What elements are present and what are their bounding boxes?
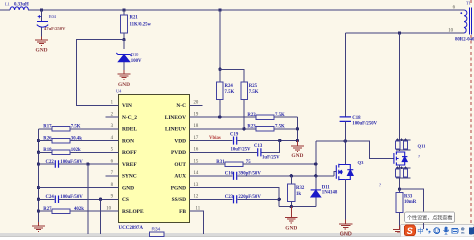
- svg-text:GND: GND: [122, 185, 134, 191]
- ground GND (shunt): [393, 230, 406, 234]
- pin 4 RON: [106, 136, 119, 141]
- svg-text:11K/0.25w: 11K/0.25w: [130, 23, 152, 28]
- input bar panel: [401, 224, 474, 237]
- svg-text:13: 13: [194, 183, 199, 188]
- svg-text:10uF/25V: 10uF/25V: [231, 147, 252, 152]
- transformer T1 primary coil: [460, 10, 466, 33]
- node junction R32 top: [290, 174, 293, 177]
- wire R33 to gnd: [399, 213, 401, 226]
- wire pin17 row VDD: [202, 140, 297, 142]
- svg-text:GND: GND: [340, 231, 352, 237]
- wire E04 branch: [41, 10, 43, 21]
- node junction rail to divider: [218, 8, 221, 11]
- svg-text:16: 16: [194, 148, 199, 153]
- wire pin4 row: [39, 140, 119, 142]
- wire pin6 branch down: [87, 164, 89, 233]
- wire pin13 row PGND: [202, 188, 279, 207]
- pin 17 VDD: [190, 136, 203, 141]
- pin label 6 (transformer): [453, 5, 456, 10]
- node junction clamp rail: [344, 139, 347, 142]
- svg-text:10mR: 10mR: [404, 200, 417, 205]
- svg-text:R26: R26: [43, 136, 52, 141]
- svg-text:OUT: OUT: [174, 162, 186, 168]
- capacitor E04 47uF/250V (polarized): [37, 15, 48, 27]
- svg-text:FB: FB: [179, 209, 186, 215]
- resistor R17 7.5K (RDEL): [43, 125, 81, 131]
- svg-text:19: 19: [194, 112, 199, 117]
- resistor R27 402k (RSLOPE): [43, 207, 84, 213]
- inductor L1: [10, 7, 28, 10]
- wire transformer primary return: [345, 33, 464, 116]
- resistor R18 102k (ROFF): [43, 148, 81, 154]
- label L1 value 0.33uH: [5, 1, 29, 7]
- svg-text:390pF/50V: 390pF/50V: [238, 171, 261, 176]
- svg-text:LINEUV: LINEUV: [165, 127, 186, 133]
- svg-text:30.4k: 30.4k: [71, 136, 82, 141]
- svg-text:R17: R17: [43, 125, 52, 130]
- svg-text:R32: R32: [296, 186, 305, 191]
- wire R24 to pin19: [219, 99, 221, 117]
- node junction Q11 drain feed: [398, 31, 401, 34]
- wire rail to R21: [123, 10, 125, 15]
- svg-text:1N4148: 1N4148: [322, 191, 338, 196]
- icon toolbox person: [461, 227, 465, 233]
- wire clamp rail to Q11 gate: [316, 141, 394, 159]
- wire Q3 source to gnd: [344, 180, 346, 220]
- svg-text:47uF/250V: 47uF/250V: [44, 26, 66, 31]
- wire pin19 row LINEOV: [202, 116, 297, 118]
- svg-text:GND: GND: [118, 82, 130, 88]
- svg-text:R18: R18: [43, 148, 52, 153]
- node Vbias label: [209, 136, 221, 141]
- capacitor C24 100uF/50V (CS): [55, 196, 58, 204]
- resistor pair (Q11 drain sense): [396, 139, 411, 141]
- pin 19 LINEOV: [190, 112, 203, 117]
- node junction shunt top: [398, 187, 401, 190]
- capacitor C22 100uF/50V (VREF): [55, 160, 58, 168]
- svg-text:个性设置，点我查看: 个性设置，点我查看: [407, 214, 452, 222]
- op-amp U4 UCC2897A body: [116, 89, 190, 232]
- transformer T1 core: [469, 8, 471, 35]
- pin 10 RSLOPE: [106, 206, 119, 211]
- svg-text:AUX: AUX: [174, 174, 186, 180]
- svg-text:GND: GND: [291, 153, 303, 159]
- wire pin9 branch down: [100, 199, 102, 233]
- node junction at R21: [122, 8, 125, 11]
- wire R32 to gnd rail: [290, 202, 292, 207]
- pin 11 FB: [190, 206, 203, 211]
- svg-text:S: S: [407, 226, 413, 236]
- ground GND (under D10): [118, 74, 131, 88]
- wire R25 to pin18: [243, 99, 245, 129]
- capacitor C13 1uF/25V: [258, 148, 261, 156]
- svg-text:R33: R33: [404, 195, 413, 200]
- svg-text:7.5K: 7.5K: [249, 90, 259, 95]
- svg-text:?: ?: [379, 183, 381, 188]
- svg-text:C18: C18: [352, 116, 361, 121]
- svg-text:LINEOV: LINEOV: [165, 115, 186, 121]
- resistor R32 1k: [290, 176, 292, 184]
- wire pin10 row: [39, 210, 119, 212]
- resistor R24 7.5K: [217, 82, 235, 99]
- wire VIN feed to pin 1: [77, 40, 125, 106]
- svg-text:VREF: VREF: [122, 162, 137, 168]
- icon punctuation: [426, 228, 431, 234]
- pin names U4 right: [165, 103, 187, 215]
- svg-text:N-C: N-C: [176, 103, 186, 109]
- pin 7 SYNC: [106, 171, 119, 176]
- svg-text:SS/SD: SS/SD: [172, 197, 186, 203]
- capacitor C19 10uF/25V: [234, 137, 237, 145]
- svg-text:100uF/50V: 100uF/50V: [60, 160, 83, 165]
- wire pin6 row VREF: [39, 163, 119, 165]
- pin label 10 (transformer): [448, 28, 453, 33]
- wire divider return: [296, 117, 298, 141]
- node junction R25 bottom: [242, 127, 245, 130]
- wire pin5 row: [39, 151, 119, 153]
- svg-text:L1: L1: [5, 1, 10, 6]
- node junction C13 return: [278, 139, 281, 142]
- svg-text:C24: C24: [46, 195, 55, 200]
- svg-text:RSLOPE: RSLOPE: [122, 209, 144, 215]
- svg-text:?: ?: [418, 154, 420, 159]
- wire pin16 row PVDD: [202, 141, 279, 153]
- resistor R33 10mR (shunt): [399, 189, 401, 192]
- node junction divider/pin18: [296, 127, 299, 130]
- wire D10 to ground: [123, 62, 125, 70]
- pin 1 VIN: [106, 101, 119, 106]
- pin 3 RDEL: [106, 124, 119, 129]
- svg-text:R31: R31: [216, 160, 225, 165]
- pin 15 OUT: [190, 159, 203, 164]
- pin 18 LINEUV: [190, 124, 203, 129]
- svg-text:220pF/50V: 220pF/50V: [238, 195, 261, 200]
- wire gnd rail: [279, 206, 316, 208]
- svg-text:R25: R25: [249, 84, 258, 89]
- svg-text:18: 18: [194, 124, 199, 129]
- resistor R25 7.5K: [241, 82, 259, 99]
- svg-text:PVDD: PVDD: [171, 150, 186, 156]
- resistor pair (Q11 source sense): [396, 167, 411, 169]
- svg-text:11: 11: [196, 206, 201, 211]
- wire pin3 row: [39, 128, 119, 130]
- svg-text:ROFF: ROFF: [122, 150, 137, 156]
- pin 6 VREF: [106, 159, 119, 164]
- diode D11 1N4148: [315, 176, 317, 207]
- capacitor C16 390pF/50V (AUX): [234, 172, 237, 180]
- wire FB drop: [202, 211, 203, 233]
- wire pin14 row AUX: [202, 175, 334, 177]
- wire divider feed: [219, 10, 221, 69]
- svg-text:T1: T1: [466, 1, 471, 6]
- svg-text:SYNC: SYNC: [122, 174, 137, 180]
- pin 20 N-C: [190, 101, 203, 106]
- resistor R26 30.4k (RON): [43, 136, 82, 142]
- svg-text:E04: E04: [49, 14, 57, 19]
- svg-text:Q11: Q11: [418, 144, 427, 149]
- node junction gate/D11: [314, 174, 317, 177]
- svg-text:7.5K: 7.5K: [275, 113, 285, 118]
- resistor R22 7.5K: [247, 113, 285, 119]
- resistor R31 75 (gate): [216, 160, 251, 166]
- pin 9 CS: [106, 195, 119, 200]
- capacitor C23 220pF/50V (SS): [234, 195, 237, 203]
- wire pin9 row CS: [39, 198, 119, 200]
- wire bottom feedback rail: [88, 233, 204, 234]
- svg-text:C19: C19: [230, 132, 239, 137]
- node junction divider tee: [218, 68, 221, 71]
- svg-text:PGND: PGND: [171, 185, 186, 191]
- svg-text:100V: 100V: [131, 59, 142, 64]
- sogou logo: [404, 225, 415, 236]
- svg-text:C16: C16: [225, 171, 234, 176]
- svg-text:100uF/50V: 100uF/50V: [60, 195, 83, 200]
- node junction pin12 join: [278, 198, 281, 201]
- svg-text:12: 12: [194, 195, 199, 200]
- node junction pin9 branch: [99, 198, 102, 201]
- svg-text:C22: C22: [46, 160, 55, 165]
- wire pin18 row LINEUV: [202, 128, 297, 130]
- wire pin8 row GND: [39, 187, 119, 189]
- pin 5 ROFF: [106, 148, 119, 153]
- svg-text:GND: GND: [36, 48, 48, 54]
- svg-text:100uF/250V: 100uF/250V: [352, 121, 377, 126]
- wire current sense tap: [400, 189, 424, 229]
- wire R21 to node: [123, 33, 125, 40]
- icon emoji: [434, 228, 440, 234]
- transformer labels T1 80R2-040: [455, 1, 474, 43]
- svg-text:R21: R21: [130, 16, 139, 21]
- taskbar strip: [0, 233, 474, 237]
- svg-text:R22: R22: [247, 113, 256, 118]
- icon keyboard: [452, 228, 458, 233]
- node junction OUT tee: [314, 162, 317, 165]
- pin 13 PGND: [190, 183, 203, 188]
- node junction at E04: [40, 8, 43, 11]
- resistor R21 11K/0.25w: [121, 15, 152, 33]
- svg-text:VDD: VDD: [174, 138, 186, 144]
- tooltip bubble 个性设置: [405, 212, 455, 223]
- svg-text:15: 15: [194, 159, 199, 164]
- svg-text:75: 75: [246, 160, 251, 165]
- svg-text:14: 14: [194, 171, 199, 176]
- node junction gnd rail: [290, 205, 293, 208]
- capacitor C18 100uF/250V (clamp): [340, 117, 351, 122]
- ground (bus bottom): [32, 226, 45, 231]
- svg-text:0.33uH: 0.33uH: [14, 2, 29, 7]
- svg-text:CS: CS: [122, 197, 129, 203]
- diode D10 zener 100V: [123, 40, 125, 49]
- transistor Q3 mosfet: [334, 172, 336, 176]
- resistor R23 7.5K: [247, 125, 285, 131]
- svg-text:7.5K: 7.5K: [275, 125, 285, 130]
- wire sense tap through bar: [422, 223, 424, 229]
- resistor R34: [150, 227, 165, 237]
- icon microphone: [444, 227, 449, 235]
- ground GND (under Q3): [339, 224, 353, 229]
- pin 8 GND: [106, 183, 119, 188]
- icon rightmost (cut): [469, 227, 474, 235]
- wire pin15 row OUT: [202, 163, 315, 165]
- svg-text:102k: 102k: [71, 148, 81, 153]
- svg-text:U4: U4: [116, 89, 122, 94]
- wire jog to R25: [220, 69, 244, 82]
- svg-text:VIN: VIN: [122, 103, 132, 109]
- svg-text:7.5K: 7.5K: [225, 90, 235, 95]
- node junction R24 bottom: [218, 115, 221, 118]
- wire clamp node vertical: [315, 141, 317, 176]
- svg-text:R23: R23: [247, 125, 256, 130]
- transistor Q11 mosfet: [394, 151, 408, 165]
- node junction pin6 branch: [86, 162, 89, 165]
- pin 2 N-C_2: [106, 112, 119, 117]
- ground GND (input cap): [35, 40, 48, 54]
- svg-text:R34: R34: [152, 227, 161, 233]
- pin names U4 left: [122, 103, 144, 215]
- ground GND (pgnd rail): [285, 207, 298, 232]
- wire top input rail: [0, 9, 464, 11]
- node junction divider gnd: [296, 139, 299, 142]
- wire C18 to Q3 drain: [344, 121, 346, 164]
- pin 14 AUX: [190, 171, 203, 176]
- ground GND (bias): [291, 141, 304, 159]
- svg-text:1uF/25V: 1uF/25V: [262, 156, 280, 161]
- wire Q11 drain feed: [399, 33, 401, 140]
- svg-text:RON: RON: [122, 138, 134, 144]
- svg-text:Q3: Q3: [358, 160, 365, 165]
- svg-text:10: 10: [448, 28, 453, 33]
- svg-text:R24: R24: [225, 84, 234, 89]
- wire pin12 row SS/SD: [202, 198, 279, 200]
- svg-text:1k: 1k: [296, 192, 301, 197]
- wire E04 to ground: [41, 28, 43, 37]
- svg-text:20: 20: [194, 101, 199, 106]
- svg-text:7.5K: 7.5K: [71, 125, 81, 130]
- svg-text:C13: C13: [254, 144, 263, 149]
- sheet boundary dashed line: [470, 0, 472, 233]
- svg-text:N-C_2: N-C_2: [122, 115, 137, 121]
- node junction under R21: [122, 38, 125, 41]
- pin 12 SS/SD: [190, 195, 203, 200]
- svg-text:D10: D10: [131, 52, 139, 57]
- node junctions on bus: [37, 139, 40, 213]
- svg-text:GND: GND: [285, 225, 297, 231]
- svg-text:17: 17: [194, 136, 199, 141]
- svg-text:UCC2897A: UCC2897A: [119, 226, 144, 231]
- pin 16 PVDD: [190, 148, 203, 153]
- svg-text:R27: R27: [43, 207, 52, 212]
- svg-text:C23: C23: [225, 195, 234, 200]
- svg-text:RDEL: RDEL: [122, 127, 137, 133]
- wire left bias bus: [38, 129, 40, 222]
- svg-text:中: 中: [417, 226, 423, 235]
- svg-text:402k: 402k: [74, 207, 84, 212]
